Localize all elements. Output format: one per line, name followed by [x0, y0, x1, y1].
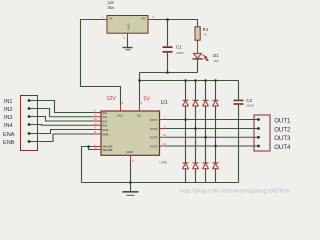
node conn-in pin3 [28, 115, 31, 118]
diode D7 (bottom row col2) [193, 163, 199, 169]
svg-text:D1: D1 [213, 53, 219, 58]
pin stub U1 OUT4 [160, 145, 167, 147]
pin stub U1 GND pin8 [130, 155, 132, 161]
diode D4 (top row col3) [203, 100, 209, 106]
svg-text:ENA: ENA [103, 128, 109, 132]
wire OUT1 row [166, 119, 259, 121]
wire IN4 [29, 124, 93, 127]
pin stub R1 top [197, 25, 199, 27]
wire C2 bottom [238, 105, 240, 183]
node conn-in pin4 [28, 123, 31, 126]
pin stub U2 GND pin2 [127, 33, 129, 38]
wire 5V line [140, 72, 198, 74]
wire U2 ground [127, 39, 129, 48]
wire U1 GND pin to rail [130, 162, 132, 192]
svg-text:5V: 5V [144, 97, 151, 103]
pin stub U1 OUT2 [160, 128, 167, 130]
svg-text:VS: VS [137, 114, 141, 118]
regulator U2 7805 body [107, 16, 148, 34]
svg-text:L298: L298 [160, 160, 167, 164]
diode D2 (top row col1) [183, 100, 189, 106]
svg-text:C2: C2 [246, 98, 252, 103]
node gnd rail ic [129, 181, 132, 184]
svg-text:ENB: ENB [103, 132, 109, 136]
wire IN3 [29, 117, 93, 122]
wire U2 VO to R1 top [153, 20, 198, 25]
svg-text:VCC: VCC [117, 114, 124, 118]
svg-text:VO: VO [141, 17, 146, 21]
wire OUT3 row [166, 136, 259, 138]
output connector J2 [254, 115, 270, 151]
svg-text:LED: LED [214, 59, 219, 63]
capacitor C1 [163, 46, 173, 52]
node conn-in pin1 [28, 99, 31, 102]
pin stub U1 VCC pin9 [120, 105, 122, 112]
node bus col2 [194, 79, 197, 82]
wire OUT2 row [166, 128, 259, 130]
pin stub U1 IN4 [93, 124, 101, 126]
node C1 bottom junction [166, 71, 169, 74]
node out4 col4 [214, 145, 217, 148]
IC U1 L298 body [101, 111, 160, 156]
svg-text:C1: C1 [176, 44, 182, 49]
pin stub U1 ENB [93, 133, 101, 135]
node C1 top junction [166, 18, 169, 21]
diode D5 (top row col4) [213, 100, 219, 106]
node conn-in pin6 [28, 140, 31, 143]
svg-text:VI: VI [110, 17, 113, 21]
svg-text:SENSB: SENSB [103, 148, 113, 152]
svg-text:OUT1: OUT1 [150, 118, 158, 122]
svg-text:OUT4: OUT4 [150, 144, 158, 148]
pin stub U1 SENSA [93, 146, 102, 148]
wire 5V bus [140, 80, 239, 82]
input connector J1 [21, 96, 38, 151]
resistor R1 [195, 27, 200, 40]
ground symbol under U2 [123, 48, 133, 50]
pin stub U1 OUT1 [160, 119, 167, 121]
wire C1 top branch [167, 20, 169, 47]
node bus col4 [214, 79, 217, 82]
wire D1 bottom [197, 59, 199, 73]
node conn-out pin2 [257, 127, 260, 130]
node out2 col2 [194, 127, 197, 130]
svg-text:7805: 7805 [107, 6, 114, 10]
diode D9 (bottom row col4) [213, 163, 219, 169]
wire diode column 3 [205, 81, 207, 183]
node conn-in pin2 [28, 107, 31, 110]
svg-text:IN1: IN1 [4, 99, 13, 105]
diode D3 (top row col2) [193, 100, 199, 106]
wire C1 bottom [167, 53, 169, 73]
pin stub U2 VI pin1 [102, 19, 108, 21]
svg-text:OUT4: OUT4 [274, 144, 291, 151]
pin stub U1 OUT3 [160, 136, 167, 138]
node out1 col1 [184, 118, 187, 121]
svg-text:IN3: IN3 [4, 115, 13, 121]
node conn-out pin1 [257, 118, 260, 121]
svg-text:OUT3: OUT3 [274, 135, 291, 142]
svg-text:IN2: IN2 [4, 107, 13, 113]
pin stub U1 VS pin4 [139, 105, 141, 112]
wire diode column 4 [215, 81, 217, 183]
node conn-out pin3 [257, 136, 260, 139]
node conn-in pin5 [28, 132, 31, 135]
node out3 col3 [204, 136, 207, 139]
pin stub U1 IN3 [93, 120, 101, 122]
svg-text:R1: R1 [203, 27, 209, 32]
wire ENB [29, 134, 93, 142]
pin stub R1 bottom to LED [197, 40, 199, 53]
node conn-out pin4 [257, 145, 260, 148]
svg-text:ENB: ENB [3, 140, 15, 146]
svg-text:GND: GND [126, 150, 134, 154]
svg-text:OUT1: OUT1 [274, 117, 291, 124]
diode D6 (bottom row col1) [183, 163, 189, 169]
wire SENSA/SENSB tie [82, 147, 93, 183]
node bus col1 [184, 79, 187, 82]
wire ground rail [82, 182, 239, 184]
pin stub U1 SENSB [93, 149, 102, 151]
pin stub U1 IN2 [93, 116, 101, 118]
svg-text:OUT2: OUT2 [274, 126, 291, 133]
svg-text:12V: 12V [106, 96, 116, 102]
node sens tie [87, 145, 90, 148]
svg-text:http://blog.csdn.net/weidongqi: http://blog.csdn.net/weidongqiang1987824 [180, 189, 289, 195]
svg-text:IN4: IN4 [4, 123, 13, 129]
svg-text:220uF: 220uF [176, 51, 184, 55]
svg-text:OUT2: OUT2 [150, 127, 158, 131]
wire 12V input to U2 VI and down to U1 VCC [81, 20, 121, 105]
node 5V bus junction [138, 79, 141, 82]
wire VS vertical [139, 73, 141, 105]
wire diode column 2 [195, 81, 197, 183]
pin stub U1 ENA [93, 129, 101, 131]
LED D1 [192, 53, 209, 61]
pin stub U1 IN1 [93, 112, 101, 114]
wire IN1 [29, 101, 93, 113]
node bus col3 [204, 79, 207, 82]
svg-text:U1: U1 [161, 100, 168, 106]
svg-text:GND: GND [127, 24, 131, 30]
svg-text:ENA: ENA [3, 132, 15, 138]
wire IN2 [29, 109, 93, 117]
pin stub U2 VO pin3 [148, 19, 153, 21]
ground symbol under U1 [123, 192, 139, 196]
wire ENA [29, 130, 93, 134]
wire OUT4 row [166, 145, 259, 147]
wire C2 top [238, 81, 240, 100]
capacitor C2 [234, 100, 244, 105]
diode D8 (bottom row col3) [203, 163, 209, 169]
svg-text:220uF: 220uF [246, 104, 254, 108]
wire diode column 1 [185, 81, 187, 183]
svg-text:OUT3: OUT3 [150, 136, 158, 140]
